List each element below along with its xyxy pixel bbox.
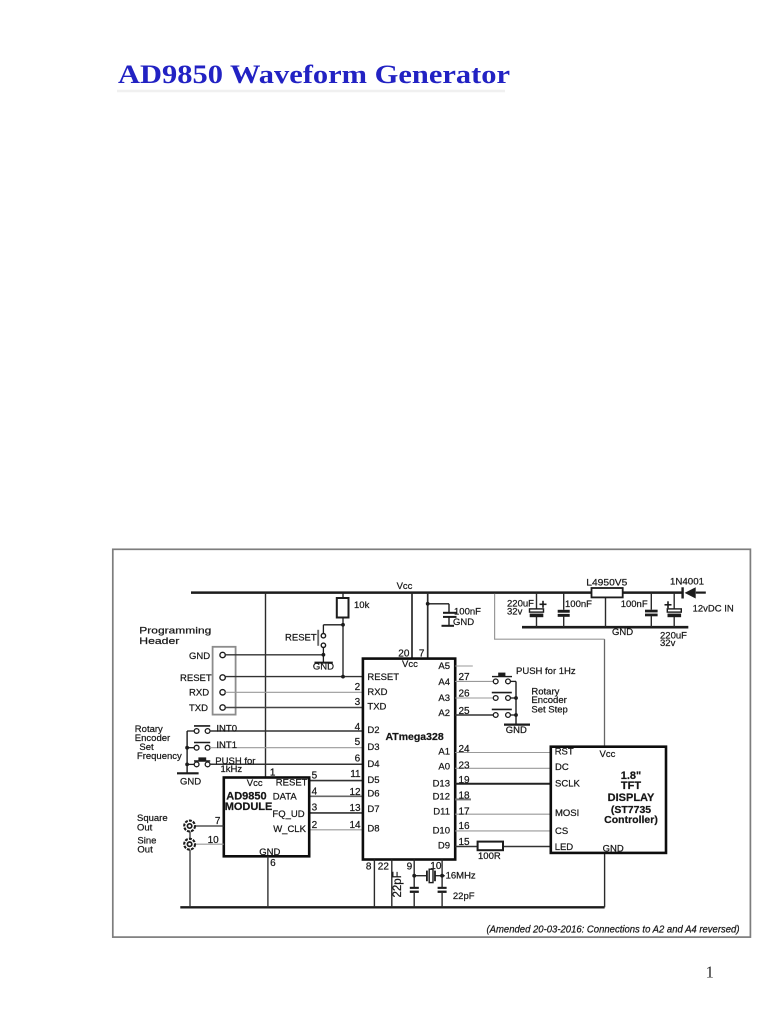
svg-text:AD9850 Waveform Generator: AD9850 Waveform Generator [118,59,510,89]
svg-text:1: 1 [270,767,276,778]
svg-text:7: 7 [419,649,425,660]
svg-text:Vcc: Vcc [397,581,413,592]
svg-text:PUSH for 1Hz: PUSH for 1Hz [516,666,576,677]
svg-text:A4: A4 [438,677,450,688]
svg-text:RESET: RESET [180,673,212,684]
svg-text:GND: GND [506,725,527,736]
svg-text:100nF: 100nF [454,607,481,618]
svg-text:D2: D2 [367,725,379,736]
svg-text:L4950V5: L4950V5 [586,577,627,588]
svg-text:A2: A2 [438,708,450,719]
svg-text:GND: GND [612,627,633,638]
svg-text:D7: D7 [367,804,379,815]
svg-text:22: 22 [378,862,390,873]
svg-text:Frequency: Frequency [137,751,182,762]
svg-text:26: 26 [459,688,471,699]
svg-text:10: 10 [430,861,442,872]
svg-text:INT1: INT1 [216,740,237,751]
svg-text:D6: D6 [367,788,379,799]
svg-text:4: 4 [355,722,361,733]
svg-text:Header: Header [139,636,179,647]
svg-text:1N4001: 1N4001 [670,576,704,587]
svg-text:D9: D9 [438,841,450,852]
svg-text:CS: CS [555,826,568,837]
svg-text:A3: A3 [438,693,450,704]
svg-text:Out: Out [137,844,153,855]
svg-text:GND: GND [453,617,474,628]
svg-text:TFT: TFT [621,780,641,792]
svg-text:18: 18 [459,790,471,801]
svg-text:24: 24 [459,744,471,755]
svg-text:22pF: 22pF [392,871,404,897]
svg-text:13: 13 [349,803,361,814]
svg-text:25: 25 [459,706,471,717]
svg-text:RESET: RESET [285,633,317,644]
svg-text:27: 27 [459,672,471,683]
svg-text:12: 12 [349,787,361,798]
svg-text:1kHz: 1kHz [221,764,243,775]
svg-text:3: 3 [312,803,318,814]
svg-text:A1: A1 [438,746,450,757]
svg-text:D13: D13 [433,779,450,790]
svg-text:RXD: RXD [367,687,387,698]
svg-text:2: 2 [355,682,361,693]
svg-text:10: 10 [208,835,220,846]
svg-text:Vcc: Vcc [402,659,418,670]
svg-text:LED: LED [555,842,574,853]
svg-text:ATmega328: ATmega328 [386,731,444,743]
svg-text:12vDC IN: 12vDC IN [693,604,734,615]
svg-text:15: 15 [459,837,471,848]
svg-text:MODULE: MODULE [225,801,273,813]
svg-text:6: 6 [270,858,276,869]
svg-text:RST: RST [555,746,574,757]
svg-text:11: 11 [350,769,361,780]
svg-text:GND: GND [259,847,280,858]
svg-text:INT0: INT0 [216,724,237,735]
svg-text:19: 19 [459,775,471,786]
svg-text:14: 14 [349,820,361,831]
svg-text:FQ_UD: FQ_UD [272,809,304,820]
svg-text:D11: D11 [433,806,450,817]
svg-text:10k: 10k [354,600,370,611]
svg-text:TXD: TXD [189,703,208,714]
svg-text:9: 9 [407,861,413,872]
svg-text:17: 17 [459,806,471,817]
svg-text:Set Step: Set Step [531,704,567,715]
svg-text:1: 1 [706,962,715,981]
svg-text:GND: GND [313,662,334,673]
svg-text:MOSI: MOSI [555,808,579,819]
svg-text:4: 4 [312,787,318,798]
svg-text:2: 2 [312,820,318,831]
svg-text:RESET: RESET [276,778,308,789]
svg-text:5: 5 [312,770,318,781]
svg-text:20: 20 [398,649,410,660]
svg-text:RXD: RXD [189,688,209,699]
svg-text:100R: 100R [478,851,501,862]
svg-text:Controller): Controller) [604,814,658,826]
svg-text:GND: GND [189,651,210,662]
svg-text:7: 7 [215,816,221,827]
svg-text:32v: 32v [660,638,676,649]
svg-text:Vcc: Vcc [600,749,616,760]
svg-text:W_CLK: W_CLK [273,824,306,835]
svg-text:DISPLAY: DISPLAY [608,792,655,804]
svg-text:D8: D8 [367,823,379,834]
svg-text:GND: GND [603,844,624,855]
svg-text:TXD: TXD [367,702,386,713]
svg-text:5: 5 [355,737,361,748]
svg-text:Vcc: Vcc [247,778,263,789]
svg-text:A5: A5 [438,661,450,672]
svg-text:D10: D10 [433,826,450,837]
svg-text:SCLK: SCLK [555,779,580,790]
svg-text:D4: D4 [367,759,379,770]
svg-text:6: 6 [355,754,361,765]
svg-text:Out: Out [137,823,153,834]
svg-text:D5: D5 [367,775,379,786]
svg-text:(Amended 20-03-2016: Connectio: (Amended 20-03-2016: Connections to A2 a… [487,925,740,936]
svg-text:22pF: 22pF [453,891,475,902]
svg-text:100nF: 100nF [621,599,648,610]
svg-text:D3: D3 [367,742,379,753]
svg-text:DATA: DATA [273,792,298,803]
svg-text:3: 3 [355,697,361,708]
svg-text:Programming: Programming [139,625,211,636]
svg-text:100nF: 100nF [565,599,592,610]
svg-text:16MHz: 16MHz [446,871,476,882]
svg-text:32v: 32v [507,606,523,617]
svg-text:RESET: RESET [367,672,399,683]
svg-text:23: 23 [459,760,471,771]
svg-text:D12: D12 [433,791,450,802]
svg-text:DC: DC [555,762,569,773]
svg-text:A0: A0 [438,761,450,772]
svg-text:8: 8 [366,862,372,873]
svg-text:GND: GND [180,776,201,787]
svg-text:16: 16 [459,821,471,832]
